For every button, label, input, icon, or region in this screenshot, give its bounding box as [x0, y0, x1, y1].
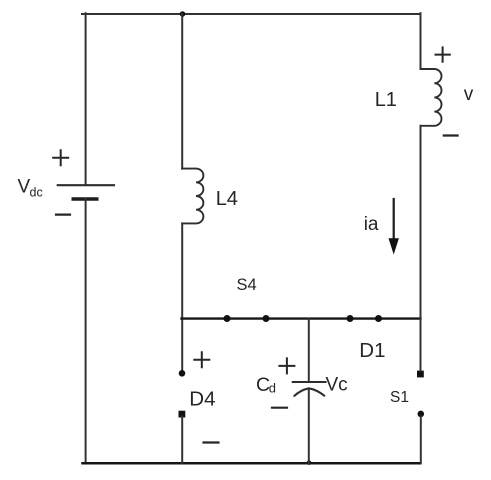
svg-text:d: d: [269, 381, 276, 396]
svg-text:L4: L4: [216, 188, 238, 210]
wire bottom bus: [83, 462, 421, 465]
wire left vertical upper (top bus to battery +): [85, 13, 87, 184]
label - (Cd): [272, 407, 287, 409]
node dot 3 on middle bus: [347, 315, 354, 322]
svg-text:D1: D1: [359, 339, 385, 362]
diode D4 bottom terminal (square dot): [179, 411, 186, 418]
capacitor Cd top plate: [293, 381, 326, 383]
wire Cd branch lower (to bottom bus): [308, 389, 310, 464]
battery Vdc top plate (+): [58, 184, 114, 186]
label - (battery negative): [56, 214, 70, 216]
inductor L1: [421, 69, 442, 126]
inductor L4: [182, 169, 203, 224]
switch S1 bottom terminal (round dot): [418, 411, 425, 418]
battery Vdc bottom plate (-): [72, 197, 99, 201]
wire S1 bottom terminal to bottom bus: [420, 417, 422, 464]
node dot 2 on middle bus: [263, 315, 270, 322]
svg-text:D4: D4: [189, 387, 215, 410]
node dot 1 on middle bus: [224, 315, 231, 322]
wire Cd branch upper (middle bus to Cd top plate): [308, 319, 310, 382]
label - (L1 bottom): [444, 134, 458, 136]
wire D4 bottom terminal to bottom bus: [181, 417, 183, 464]
svg-text:ia: ia: [364, 214, 379, 235]
wire L4 bottom to middle bus and down to D4 anode: [181, 223, 183, 370]
arrow ia (current direction): [393, 199, 395, 241]
wire left vertical lower (battery - to bottom bus): [85, 199, 87, 463]
label + (battery positive): [53, 150, 68, 165]
label + (D4): [194, 352, 209, 367]
wire middle bus: [182, 317, 421, 319]
svg-text:L1: L1: [375, 89, 397, 111]
svg-text:S1: S1: [390, 389, 409, 406]
wire right vertical upper (top bus to L1): [420, 13, 422, 69]
node dot 4 on middle bus: [375, 315, 382, 322]
wire top bus (Vdc+ to L1 top): [82, 13, 421, 15]
svg-text:v: v: [464, 84, 474, 105]
svg-text:S4: S4: [237, 276, 257, 294]
capacitor Cd bottom plate (curved): [294, 388, 324, 396]
node junction of Cd branch on bottom bus: [307, 460, 312, 465]
svg-text:Vc: Vc: [326, 375, 348, 396]
wire right vertical middle (L1 bottom through middle bus to S1): [420, 126, 422, 371]
label + (Cd): [279, 358, 294, 373]
svg-text:dc: dc: [30, 186, 43, 200]
switch S1 top terminal (square dot): [417, 371, 424, 378]
label - (D4): [204, 441, 219, 443]
label + (L1 top): [436, 47, 450, 61]
diode D4 top terminal (round dot): [179, 370, 186, 377]
wire L4 branch top (top bus down to L4): [181, 14, 183, 169]
node junction at top of L4 branch: [180, 11, 186, 17]
